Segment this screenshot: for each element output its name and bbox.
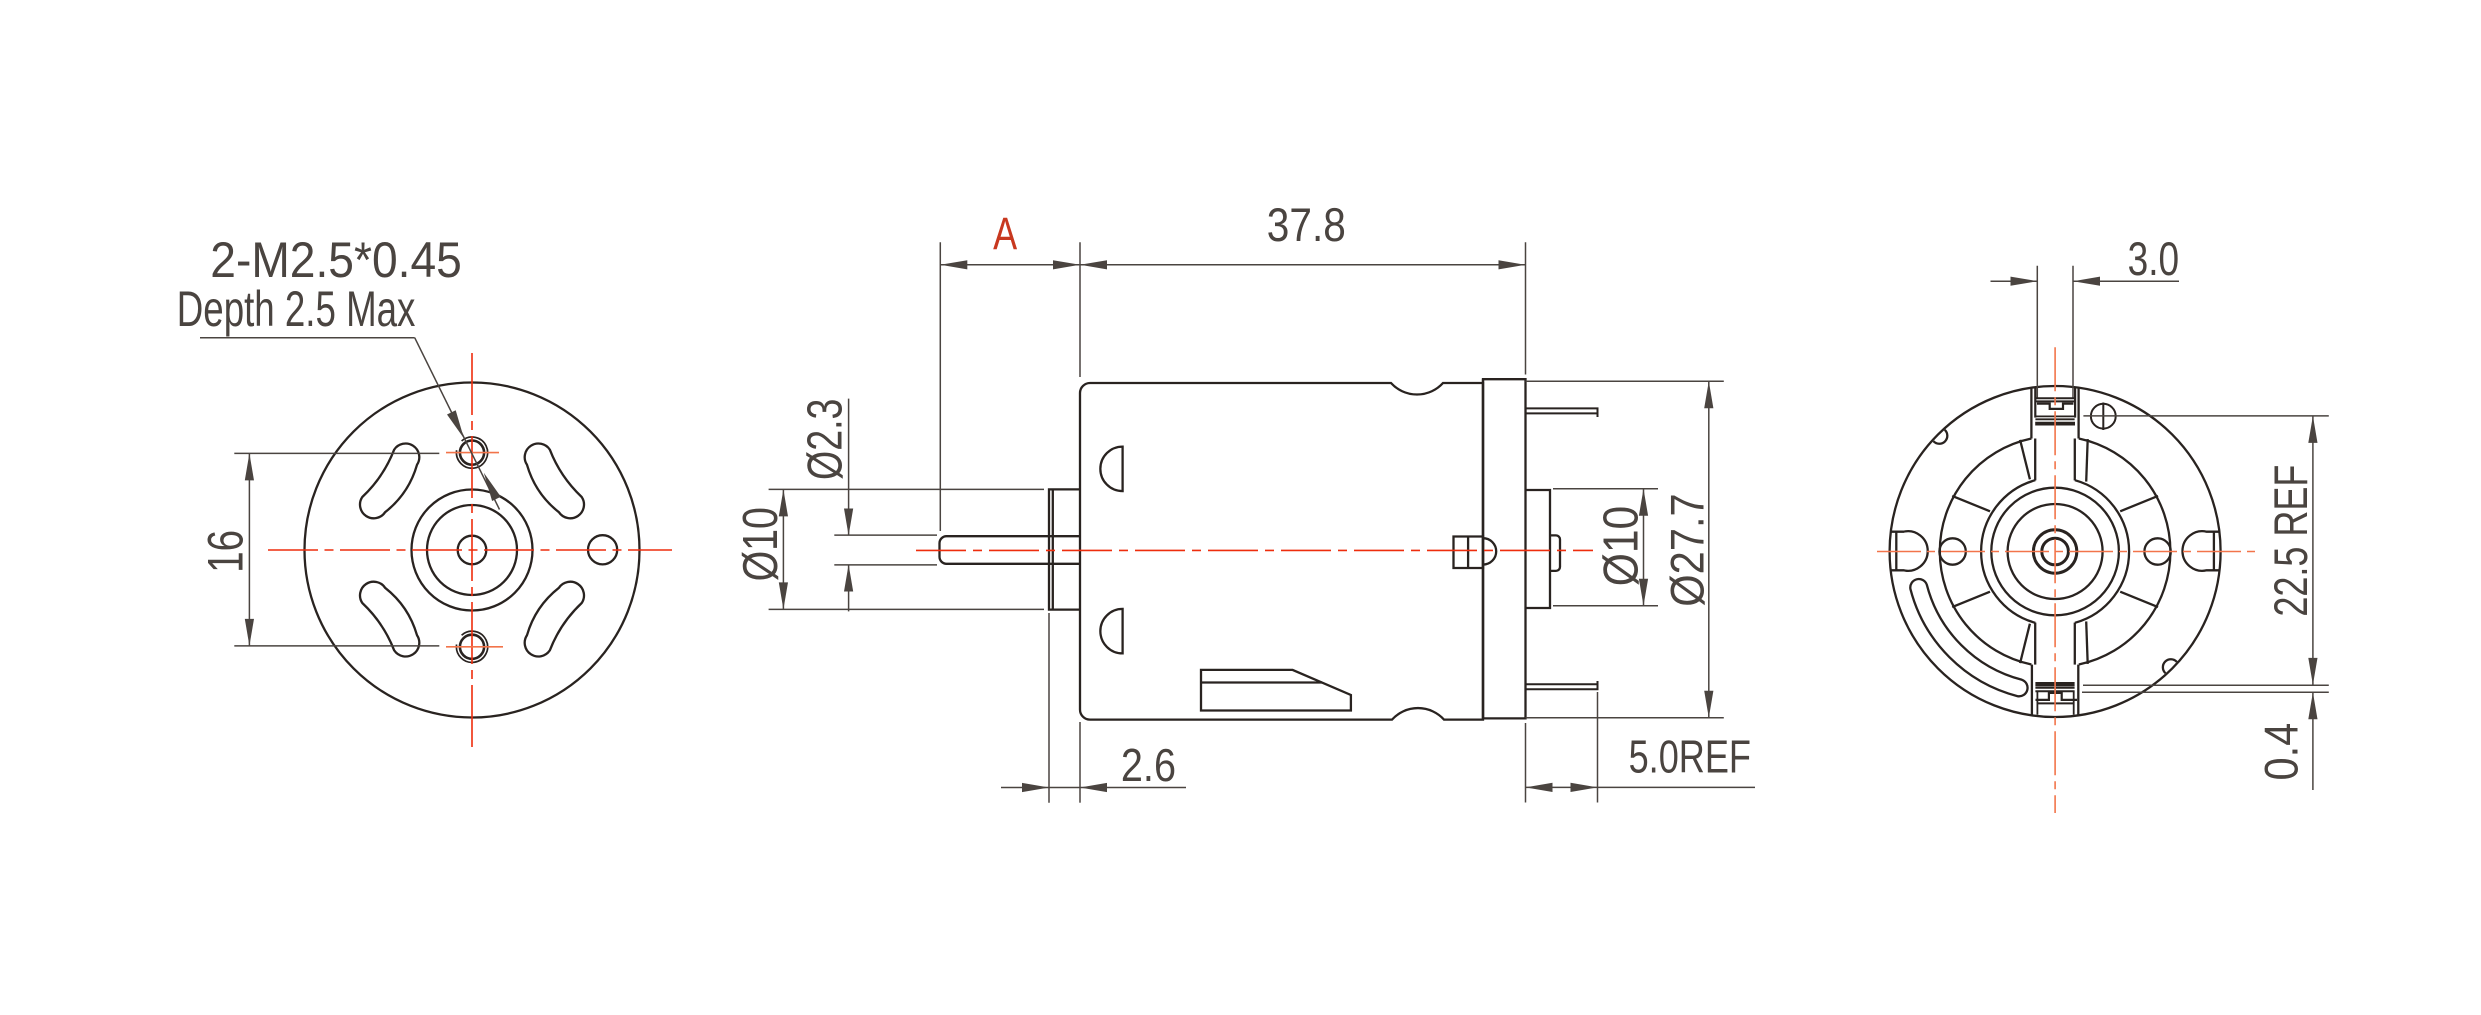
- svg-text:0.4: 0.4: [2255, 723, 2308, 781]
- svg-text:Ø10: Ø10: [1595, 506, 1649, 587]
- svg-text:Ø2.3: Ø2.3: [798, 399, 852, 480]
- svg-text:5.0REF: 5.0REF: [1629, 730, 1751, 782]
- svg-text:3.0: 3.0: [2128, 233, 2180, 286]
- svg-text:37.8: 37.8: [1267, 198, 1346, 251]
- svg-text:16: 16: [198, 530, 254, 573]
- svg-text:A: A: [993, 208, 1017, 259]
- svg-text:Depth 2.5 Max: Depth 2.5 Max: [177, 281, 416, 337]
- svg-text:2-M2.5*0.45: 2-M2.5*0.45: [210, 232, 461, 288]
- svg-text:Ø27.7: Ø27.7: [1660, 493, 1713, 606]
- svg-text:2.6: 2.6: [1121, 739, 1176, 791]
- svg-text:Ø10: Ø10: [734, 507, 788, 581]
- svg-text:22.5 REF: 22.5 REF: [2264, 465, 2317, 617]
